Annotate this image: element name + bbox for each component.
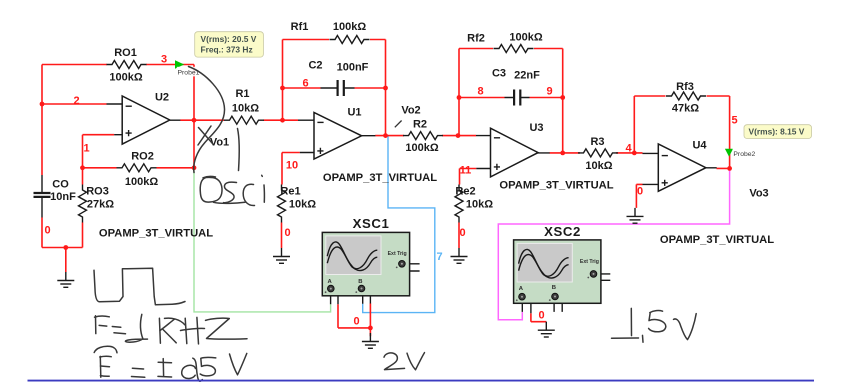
svg-text:V(rms): 20.5 V: V(rms): 20.5 V	[201, 34, 257, 44]
svg-text:Rf1: Rf1	[291, 21, 309, 33]
svg-text:Rf2: Rf2	[467, 33, 485, 45]
svg-text:100kΩ: 100kΩ	[125, 176, 158, 188]
svg-text:Vo1: Vo1	[210, 137, 229, 149]
svg-text:6: 6	[302, 78, 308, 90]
svg-text:Vo3: Vo3	[749, 188, 768, 200]
svg-text:RO2: RO2	[131, 151, 154, 163]
svg-text:Probe2: Probe2	[733, 151, 755, 158]
svg-text:C2: C2	[308, 60, 322, 72]
svg-text:10kΩ: 10kΩ	[466, 199, 493, 211]
svg-text:10: 10	[286, 160, 298, 172]
svg-text:10kΩ: 10kΩ	[232, 103, 259, 115]
svg-text:B: B	[358, 279, 362, 285]
svg-text:0: 0	[284, 227, 290, 239]
svg-text:Ext Trig: Ext Trig	[388, 251, 407, 257]
svg-text:100nF: 100nF	[337, 62, 369, 74]
svg-text:R2: R2	[413, 119, 427, 131]
svg-text:22nF: 22nF	[514, 70, 540, 82]
svg-text:C3: C3	[492, 68, 506, 80]
svg-text:100kΩ: 100kΩ	[109, 72, 142, 84]
svg-text:U2: U2	[155, 92, 169, 104]
svg-text:Re2: Re2	[455, 186, 475, 198]
svg-text:100kΩ: 100kΩ	[333, 21, 366, 33]
svg-text:XSC2: XSC2	[544, 224, 581, 239]
svg-text:9: 9	[546, 86, 552, 98]
svg-text:5: 5	[731, 115, 737, 127]
svg-text:R3: R3	[590, 136, 604, 148]
svg-text:V(rms): 8.15 V: V(rms): 8.15 V	[749, 127, 805, 137]
svg-text:100kΩ: 100kΩ	[405, 142, 438, 154]
svg-text:Ext Trig: Ext Trig	[580, 259, 599, 265]
svg-text:10nF: 10nF	[50, 191, 76, 203]
svg-text:OPAMP_3T_VIRTUAL: OPAMP_3T_VIRTUAL	[323, 172, 437, 184]
svg-text:R1: R1	[235, 88, 249, 100]
svg-text:7: 7	[436, 251, 442, 263]
svg-text:XSC1: XSC1	[353, 216, 390, 231]
svg-text:B: B	[552, 285, 556, 291]
svg-text:CO: CO	[52, 179, 69, 191]
svg-text:Vo2: Vo2	[401, 105, 420, 117]
svg-text:U4: U4	[692, 140, 707, 152]
svg-text:100kΩ: 100kΩ	[509, 32, 542, 44]
svg-text:OPAMP_3T_VIRTUAL: OPAMP_3T_VIRTUAL	[99, 228, 213, 240]
svg-text:0: 0	[637, 186, 643, 198]
svg-text:0: 0	[353, 316, 359, 328]
svg-text:OPAMP_3T_VIRTUAL: OPAMP_3T_VIRTUAL	[660, 234, 774, 246]
svg-text:8: 8	[477, 86, 483, 98]
svg-text:OPAMP_3T_VIRTUAL: OPAMP_3T_VIRTUAL	[499, 180, 613, 192]
svg-text:RO1: RO1	[114, 47, 137, 59]
svg-text:10kΩ: 10kΩ	[585, 160, 612, 172]
svg-text:Re1: Re1	[280, 186, 300, 198]
svg-text:RO3: RO3	[86, 186, 109, 198]
svg-text:U1: U1	[347, 107, 361, 119]
svg-text:2: 2	[73, 95, 79, 107]
svg-text:A: A	[328, 279, 333, 285]
svg-text:A: A	[519, 286, 524, 292]
svg-text:4: 4	[625, 143, 632, 155]
svg-text:Freq.: 373 Hz: Freq.: 373 Hz	[201, 45, 253, 55]
svg-text:10kΩ: 10kΩ	[289, 199, 316, 211]
svg-text:11: 11	[460, 165, 472, 177]
svg-text:0: 0	[538, 310, 544, 322]
svg-text:0: 0	[44, 225, 50, 237]
svg-text:27kΩ: 27kΩ	[87, 199, 114, 211]
svg-text:U3: U3	[529, 122, 543, 134]
svg-text:1: 1	[83, 143, 89, 155]
svg-text:3: 3	[161, 54, 167, 66]
svg-text:Rf3: Rf3	[676, 81, 694, 93]
svg-text:0: 0	[459, 227, 465, 239]
svg-text:47kΩ: 47kΩ	[672, 103, 699, 115]
